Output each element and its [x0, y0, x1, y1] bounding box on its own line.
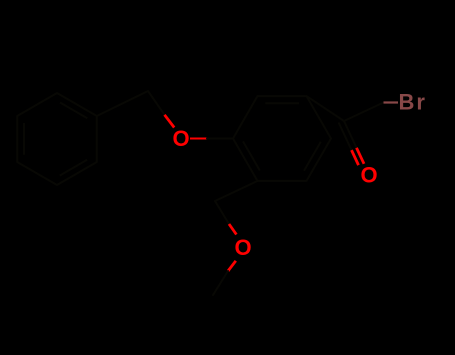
bond C=O second dark half — [339, 123, 352, 150]
bond O-CH3 dark half — [213, 271, 228, 295]
bond CH2-O dark half — [148, 91, 165, 115]
svg-text:O: O — [172, 126, 189, 151]
bond CH2-Br — [384, 101, 399, 103]
svg-text:O: O — [360, 163, 377, 188]
bond Cco-CH2 — [344, 103, 384, 122]
bond O-C1 dark half — [207, 138, 233, 140]
svg-text:O: O — [234, 235, 251, 260]
bond O-CH3 red half — [228, 261, 236, 271]
benzene ring (benzyl phenyl) — [17, 93, 97, 185]
bond C=O main dark half — [344, 121, 357, 148]
benzene ring (central aryl) — [233, 96, 331, 181]
bond ring-Cco — [307, 96, 345, 121]
bond C=O main red half — [357, 148, 365, 164]
bond C3-O dark half — [215, 201, 229, 224]
bond CH2-O red half — [165, 115, 175, 128]
bond O-C1 red half — [190, 138, 207, 140]
bond C3-O red half — [229, 224, 236, 235]
svg-text:Br: Br — [399, 90, 427, 115]
bond C=O second red half — [352, 150, 359, 165]
bond ring-C3 — [215, 181, 258, 201]
bond ring-CH2 (benzyl) — [97, 91, 148, 116]
